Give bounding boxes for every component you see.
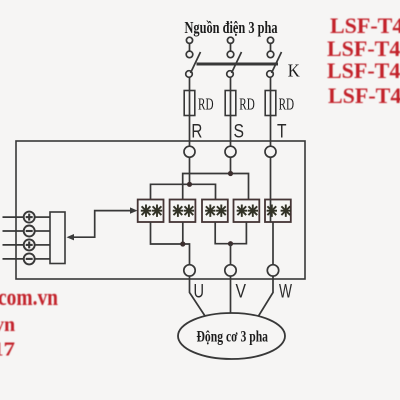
svg-text:RD: RD: [239, 95, 255, 114]
switch K pole 1 pivot: [186, 71, 193, 78]
wire fuse3 to module M5: [270, 116, 272, 200]
arrowhead into M1: [130, 207, 138, 213]
fuse RD 1: [184, 91, 195, 116]
junction dot U: [180, 241, 185, 246]
switch K pole 3 pivot: [267, 71, 274, 78]
svg-text:LSF-T40: LSF-T40: [327, 58, 400, 83]
motor lead U: [190, 279, 206, 316]
svg-text:LSF-T40: LSF-T40: [328, 83, 400, 108]
motor ellipse: [178, 313, 285, 359]
wire: [270, 43, 272, 51]
switch K pole 2 blade: [232, 52, 242, 73]
wire: [230, 43, 232, 51]
bus B (R phase): [151, 184, 216, 199]
svg-text:Nguồn điện 3 pha: Nguồn điện 3 pha: [185, 18, 278, 37]
thyristor module M2: [170, 200, 196, 223]
control block: [50, 212, 65, 264]
stub U: [189, 276, 191, 279]
junction dot V: [228, 241, 233, 246]
enclosure box: [16, 141, 305, 279]
junction dot R: [187, 182, 192, 187]
svg-text:T: T: [277, 122, 287, 143]
arrowhead into block: [67, 234, 75, 240]
stub W: [272, 276, 274, 279]
bus C below M1 M2: [151, 222, 190, 265]
wire pole3 to fuse: [270, 77, 272, 90]
wire pole2 to fuse: [230, 77, 232, 90]
svg-text:RD: RD: [198, 95, 214, 114]
motor lead W: [259, 279, 274, 316]
DC terminal 3 +: [3, 244, 24, 246]
svg-text:RD: RD: [279, 95, 295, 114]
switch K pole 2 pivot: [227, 71, 234, 78]
wire pole1 to fuse: [189, 77, 191, 90]
switch K pole 2 terminal circle: [227, 37, 233, 43]
svg-text:Động cơ 3 pha: Động cơ 3 pha: [197, 329, 269, 346]
DC terminal 2 -: [3, 230, 24, 232]
svg-text:K: K: [288, 61, 300, 81]
control wire with arrows: [69, 211, 132, 238]
svg-text:7: 7: [4, 339, 16, 361]
fuse RD 3: [265, 91, 276, 116]
bus A (S phase): [183, 174, 249, 200]
wire fuse1 to box: [189, 116, 191, 185]
thyristor module M3: [202, 200, 228, 223]
output terminal V: [225, 265, 236, 276]
switch K pole 1 blade: [191, 52, 201, 73]
switch K pole 3 terminal circle: [267, 37, 273, 43]
DC terminal 1 +: [3, 216, 24, 218]
wire: [189, 43, 191, 51]
input terminal R: [184, 146, 195, 157]
input terminal S: [225, 146, 236, 157]
svg-text:vn: vn: [0, 314, 15, 336]
wire M2 bottom: [182, 222, 184, 244]
switch K pole 3 blade: [272, 52, 282, 73]
motor lead V: [230, 279, 232, 313]
wire V drop: [230, 244, 232, 265]
stub V: [230, 276, 232, 279]
wire fuse2 to box: [230, 116, 232, 174]
thyristor module M1: [138, 200, 164, 223]
bus D below M3 M4: [215, 222, 246, 244]
switch K pole 3 fixed contact: [267, 51, 274, 58]
output terminal W: [267, 265, 278, 276]
thyristor module M5: [265, 200, 291, 223]
wire M5 to W: [272, 222, 274, 265]
switch K linkage bar: [197, 63, 279, 66]
svg-text:W: W: [279, 282, 292, 303]
switch K pole 1 terminal circle: [186, 37, 192, 43]
svg-text:R: R: [191, 122, 202, 143]
svg-text:S: S: [234, 122, 245, 143]
junction dot S: [228, 171, 233, 176]
output terminal U: [184, 265, 195, 276]
svg-text:U: U: [194, 282, 205, 303]
DC terminal 4 -: [3, 258, 24, 260]
switch K pole 1 fixed contact: [186, 51, 193, 58]
input terminal T: [265, 146, 276, 157]
svg-text:LSF-T40: LSF-T40: [330, 13, 400, 38]
svg-text:V: V: [236, 282, 247, 303]
fuse RD 2: [225, 91, 236, 116]
switch K pole 2 fixed contact: [227, 51, 234, 58]
svg-text:com.vn: com.vn: [0, 285, 58, 311]
thyristor module M4: [234, 200, 260, 223]
